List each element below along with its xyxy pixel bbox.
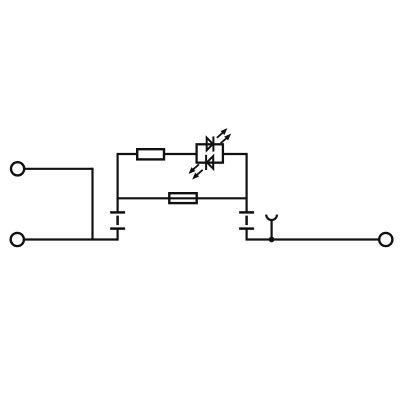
LED bridge box U1 — [197, 144, 223, 162]
wire resistor to LED — [164, 153, 197, 155]
wire right riser of parallel network — [246, 153, 248, 213]
light arrow A2 (top outer) — [221, 134, 232, 144]
wire through fuse and bottom branch right — [169, 197, 247, 199]
wire test tap stem — [271, 220, 273, 239]
wire left riser of parallel network — [116, 154, 118, 212]
wire top branch to resistor — [117, 153, 137, 155]
terminal X1.1 (top-left) — [11, 162, 24, 175]
terminal X1.2 (bottom-left) — [11, 233, 24, 246]
light arrow A4 (bottom outer) — [189, 164, 200, 174]
junction node (test tap) — [269, 237, 275, 243]
plug-in connection P1 (left) — [110, 212, 125, 228]
resistor R1 — [137, 149, 164, 159]
test socket TP1 (fork) — [266, 215, 277, 220]
wire corner down to bottom rail — [91, 168, 93, 240]
LED D2 (bottom, pointing left) — [206, 155, 213, 170]
wire LED to right riser — [223, 153, 247, 155]
light arrow A3 (bottom inner) — [192, 170, 203, 180]
wire plug to bottom-right rail — [247, 229, 380, 241]
plug-in connection P2 (right) — [239, 212, 254, 228]
LED D1 (top, pointing right) — [207, 136, 214, 151]
terminal X1.3 (right) — [379, 233, 392, 246]
fuse F1 — [169, 193, 196, 203]
wire bottom-left rail — [25, 238, 118, 240]
wire bottom branch left — [117, 197, 169, 199]
wire up to plug symbol — [116, 229, 118, 241]
light arrow A1 (top inner) — [217, 128, 228, 138]
wire from X1.1 to corner — [25, 168, 93, 170]
